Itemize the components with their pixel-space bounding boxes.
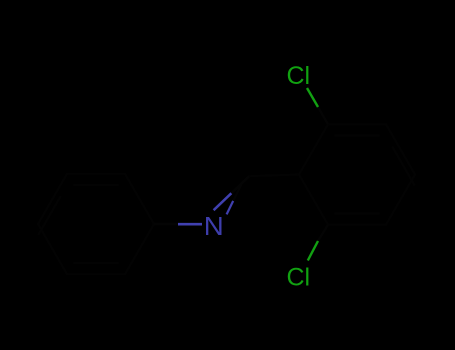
imine double bond inner stroke dark half (233, 185, 241, 201)
imine double bond N=CH main stroke blue half (214, 193, 232, 210)
bond C2-Cl(top) green half (307, 88, 318, 107)
bond C6-Cl(bottom) dark half (318, 225, 328, 241)
svg-text:N: N (204, 211, 224, 241)
bond C2-Cl(top) dark half (318, 107, 328, 124)
svg-text:Cl: Cl (287, 62, 311, 90)
benzene ring left (aniline phenyl, black-on-black) (38, 174, 154, 274)
bond C1'-N dark half (154, 223, 178, 225)
bond CH-C1 (to dichlorophenyl ring) (249, 175, 299, 177)
benzene ring right (2,6-dichlorophenyl, black-on-black) (299, 124, 415, 224)
imine double bond N=CH main stroke dark half (231, 176, 249, 193)
aromatic inner lines right ring (335, 135, 415, 213)
svg-text:Cl: Cl (287, 263, 311, 291)
aromatic inner lines left ring (38, 185, 118, 263)
imine double bond inner stroke blue half (227, 201, 234, 215)
bond C1'-N blue half (178, 223, 202, 226)
bond C6-Cl(bottom) green half (308, 241, 318, 261)
